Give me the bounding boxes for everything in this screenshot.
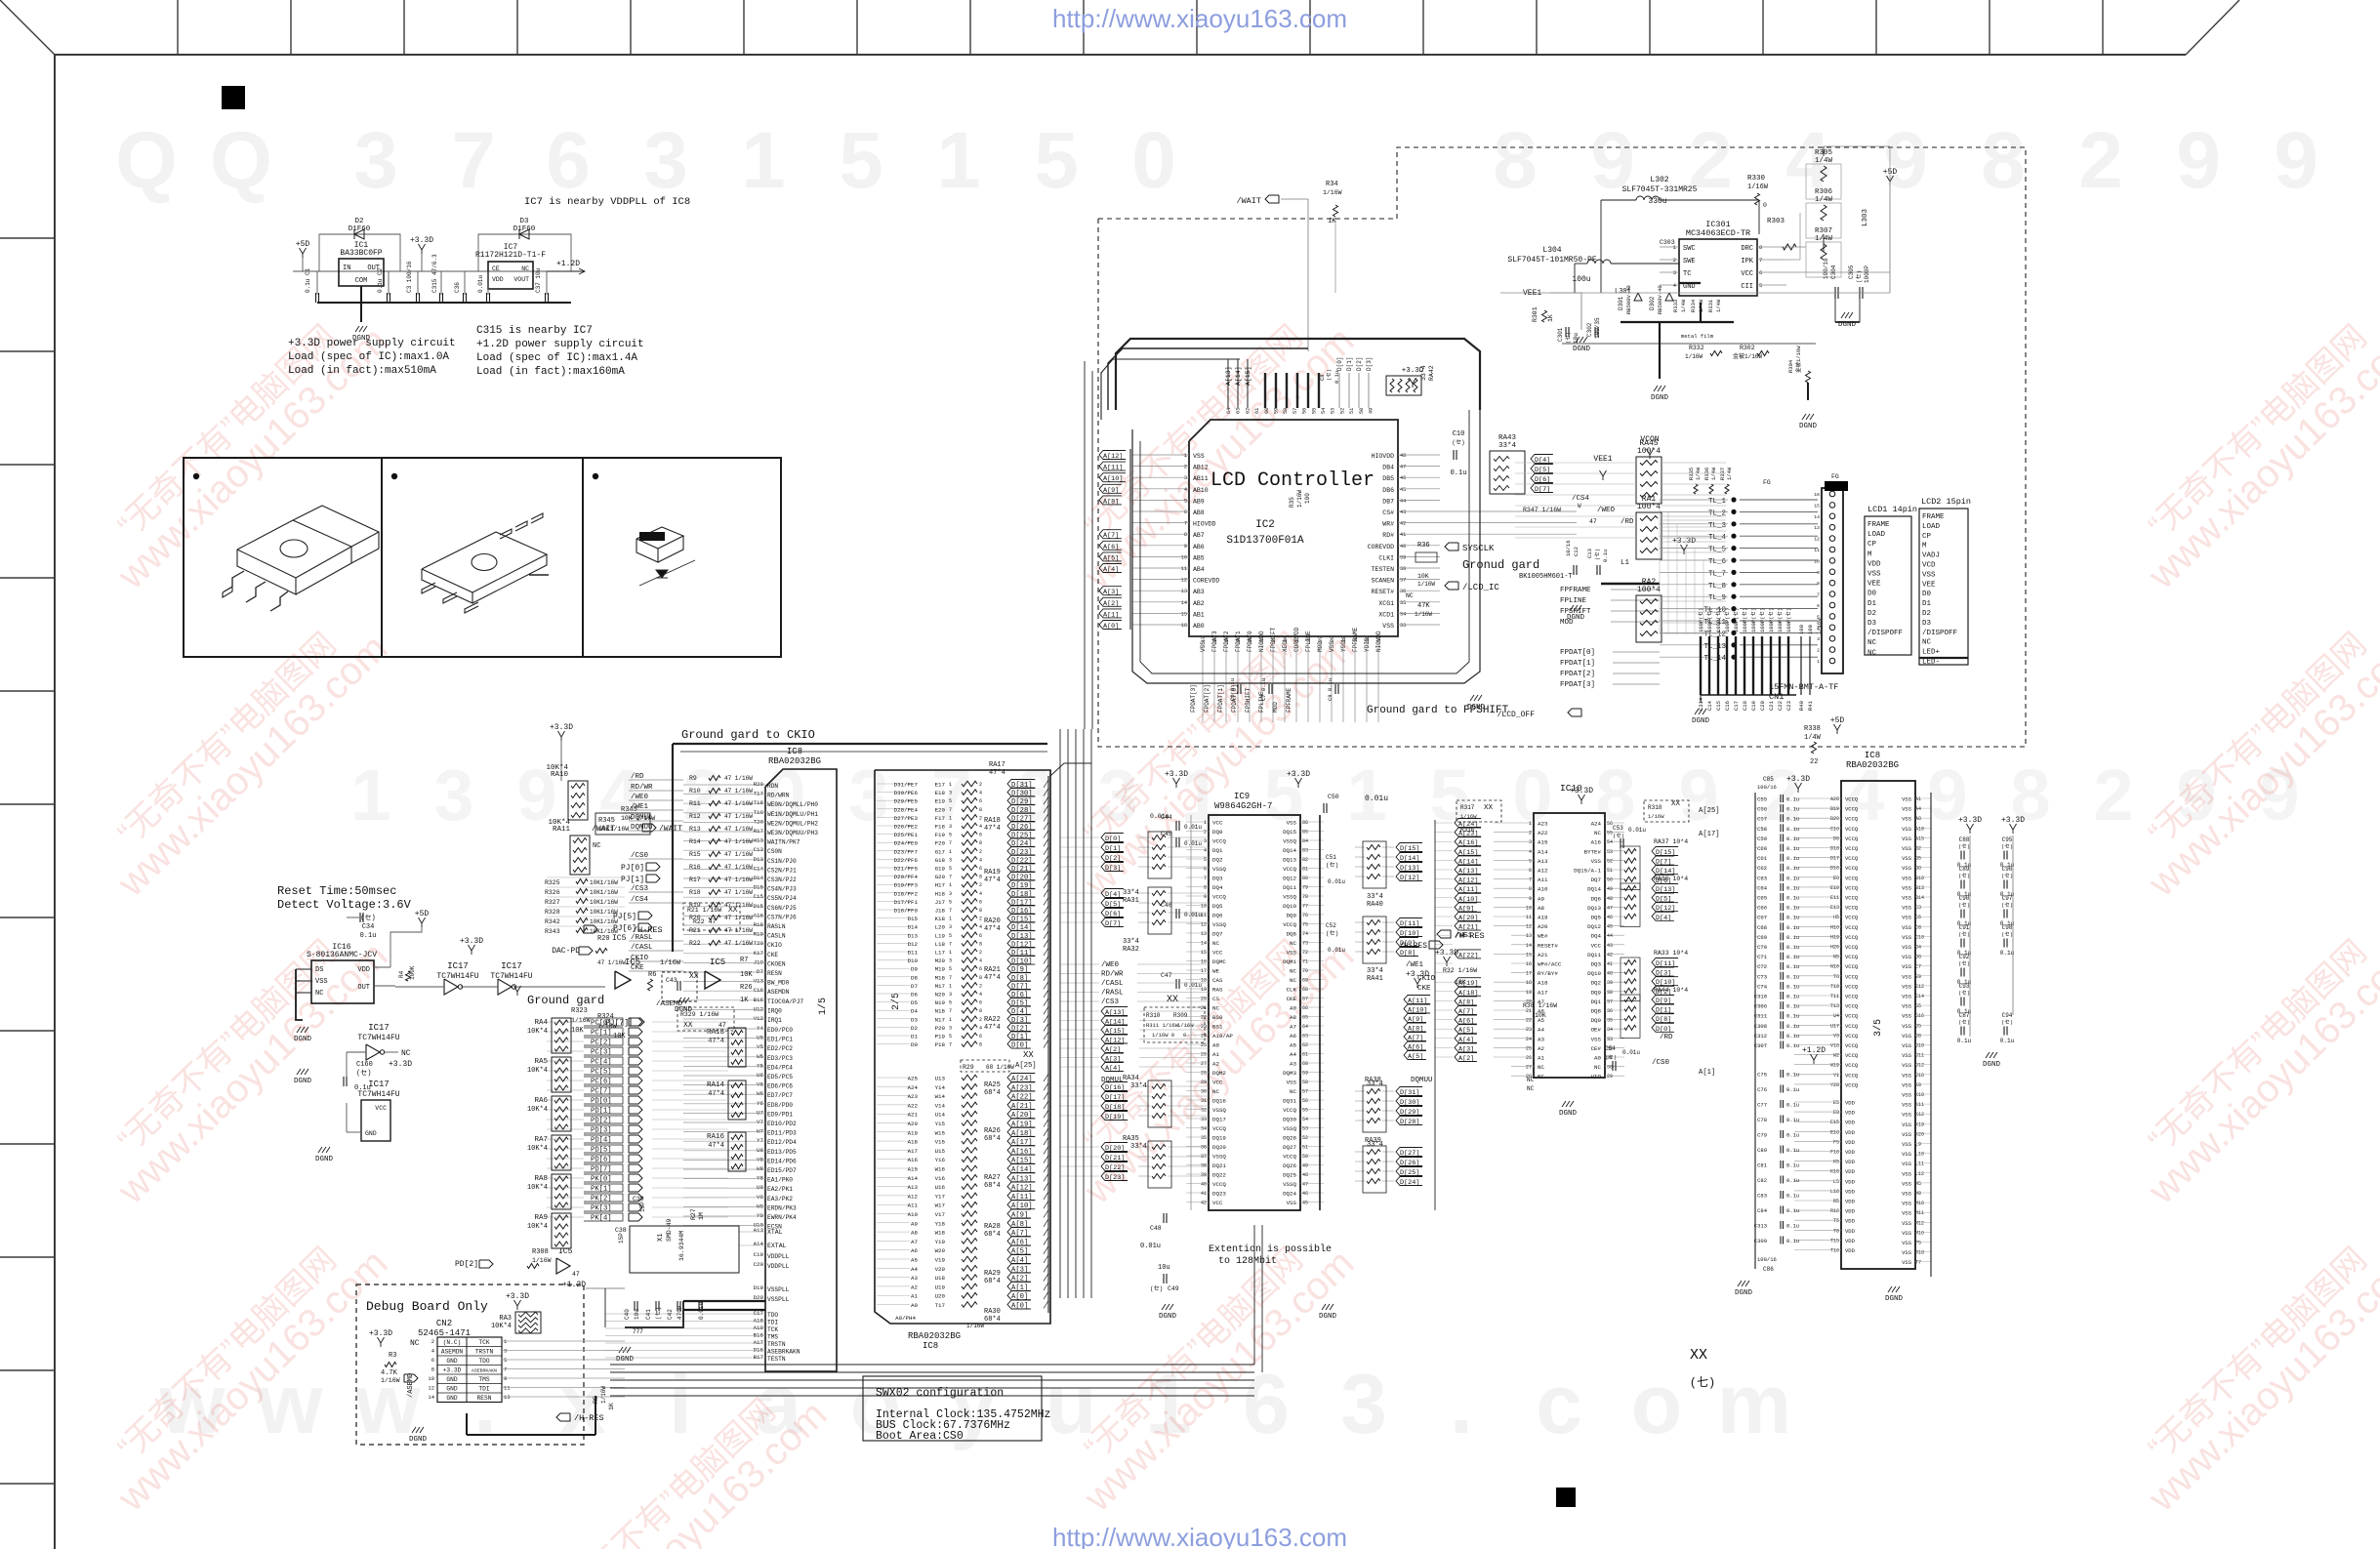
svg-text:D17: D17 [1830,856,1839,862]
svg-text:D[10]: D[10] [1400,930,1419,938]
svg-text:R41: R41 [1807,700,1814,711]
svg-text:D[6]: D[6] [1011,992,1028,999]
svg-text:P5: P5 [1915,1241,1921,1246]
svg-text:VSS: VSS [1902,1249,1912,1256]
svg-text:NC: NC [315,990,323,998]
svg-text:47 1/16W: 47 1/16W [724,775,753,782]
svg-text:C54: C54 [1605,1045,1616,1052]
svg-text:50: 50 [1302,1154,1308,1160]
svg-text:0.1u: 0.1u [1786,954,1799,960]
svg-text:1: 1 [1184,453,1187,459]
svg-text:+3.3D: +3.3D [1287,770,1310,779]
svg-text:DQ8: DQ8 [1287,931,1297,938]
svg-text:D[19]: D[19] [1011,882,1033,890]
svg-text:0.01u: 0.01u [1328,878,1345,885]
svg-text:W13: W13 [754,837,764,844]
svg-text:4: 4 [979,1025,982,1031]
svg-text:22: 22 [1810,758,1818,766]
svg-text:U8: U8 [757,1147,763,1154]
svg-text:Y6: Y6 [757,1100,763,1107]
svg-text:100P(セ): 100P(セ) [1733,608,1740,632]
svg-text:0.1u: 0.1u [1786,944,1799,951]
svg-text:D[4]: D[4] [1105,891,1121,899]
svg-text:D[3]: D[3] [1105,865,1121,873]
svg-text:100: 100 [1304,493,1311,504]
svg-text:0.1u: 0.1u [1786,826,1799,833]
svg-text:E17: E17 [935,782,946,789]
svg-text:RA25: RA25 [984,1081,1001,1089]
svg-text:68*4: 68*4 [984,1278,1001,1285]
svg-text:34: 34 [1607,1027,1613,1033]
svg-text:A[0]: A[0] [1103,623,1119,631]
svg-text:3: 3 [949,1025,952,1031]
svg-text:79: 79 [1302,885,1308,891]
svg-text:13: 13 [1526,933,1532,939]
svg-text:1/16W: 1/16W [1415,611,1432,618]
svg-text:26: 26 [1526,1055,1532,1061]
svg-text:FPLINE: FPLINE [1258,691,1265,713]
svg-text:C12: C12 [1573,547,1580,556]
svg-text:71: 71 [1302,959,1308,965]
svg-text:18: 18 [1526,980,1532,986]
svg-text:N19: N19 [935,999,946,1006]
svg-text:M18: M18 [935,974,946,981]
svg-text:37: 37 [1400,578,1406,584]
svg-text:P19: P19 [935,1034,946,1040]
svg-text:A10: A10 [1915,826,1924,832]
svg-text:D[2]: D[2] [1356,357,1363,371]
svg-text:VSSPLL: VSSPLL [767,1296,790,1303]
svg-text:FPDAT3: FPDAT3 [1211,631,1218,652]
svg-text:C160: C160 [356,1061,373,1069]
svg-text:D[11]: D[11] [1011,950,1033,958]
svg-text:R316: R316 [1460,827,1475,834]
svg-text:D[6]: D[6] [1535,476,1550,484]
svg-text:5: 5 [504,1357,507,1364]
svg-text:(セ): (セ) [2001,1019,2013,1026]
svg-text:RBA02032BG: RBA02032BG [768,756,821,766]
svg-text:V16: V16 [1830,1043,1839,1049]
svg-text:DQ6: DQ6 [1591,895,1602,902]
svg-text:A4: A4 [1915,806,1921,812]
svg-text:C46: C46 [1161,902,1172,909]
svg-text:43: 43 [1607,943,1613,949]
svg-text:T8: T8 [1833,1228,1839,1234]
svg-text:C19: C19 [754,1251,764,1258]
svg-text:C309: C309 [1754,1238,1767,1244]
svg-text:Y19: Y19 [935,1239,946,1245]
svg-text:FPDAT2: FPDAT2 [1223,631,1230,652]
svg-text:1/16W: 1/16W [532,1257,552,1264]
svg-text:5: 5 [1759,282,1762,289]
svg-text:DQ21: DQ21 [1212,1162,1226,1169]
svg-text:100P(セ): 100P(セ) [1750,608,1757,632]
svg-text:0.1u: 0.1u [1786,1042,1799,1049]
svg-text:VCCQ: VCCQ [1845,994,1859,1000]
svg-text:IC5: IC5 [612,934,627,943]
svg-text:C37 10u: C37 10u [535,267,542,293]
svg-text:7: 7 [1184,521,1187,527]
svg-text:DQ3: DQ3 [1212,876,1223,882]
svg-text:47 1/16W: 47 1/16W [724,876,753,883]
svg-text:M: M [1922,543,1927,550]
svg-text:9: 9 [1817,570,1820,576]
svg-text:C18: C18 [1742,701,1748,711]
svg-text:E16: E16 [1830,1129,1839,1135]
svg-text:L16: L16 [1830,1189,1839,1195]
svg-text:34: 34 [1400,611,1406,617]
svg-text:+3.3D: +3.3D [506,1292,529,1301]
svg-text:D[0]: D[0] [1656,1026,1671,1034]
svg-text:11: 11 [1814,548,1820,553]
svg-text:5: 5 [949,933,952,939]
svg-text:E7: E7 [1915,964,1921,970]
svg-text:FRAME: FRAME [1922,513,1945,521]
svg-text:A4: A4 [1538,1027,1544,1034]
svg-text:VSS: VSS [1902,1201,1912,1207]
svg-text:DGND: DGND [1885,1295,1904,1303]
svg-text:FPDAT[3]: FPDAT[3] [1190,684,1197,713]
svg-text:2: 2 [1673,257,1676,264]
svg-text:Y9: Y9 [757,1212,763,1219]
svg-text:A[17]: A[17] [1699,831,1720,838]
svg-text:VDD: VDD [1845,1139,1856,1146]
svg-text:6: 6 [1759,269,1762,276]
svg-text:DQ0: DQ0 [1591,1017,1602,1024]
svg-text:C301: C301 [1557,327,1564,342]
svg-text:D5: D5 [911,999,918,1006]
svg-text:(セ): (セ) [2001,931,2013,938]
svg-text:VSS: VSS [1382,623,1394,630]
svg-text:C47: C47 [1161,972,1172,979]
svg-text:8: 8 [979,840,982,846]
svg-text:DQ31: DQ31 [1283,1098,1296,1105]
svg-text:59: 59 [1302,1071,1308,1077]
svg-text:VDD: VDD [357,966,370,974]
svg-text:30: 30 [1201,1089,1207,1095]
svg-text:+3.3D: +3.3D [2001,816,2025,825]
svg-text:1000P: 1000P [1864,265,1870,283]
svg-text:VCCQ: VCCQ [1283,866,1296,873]
svg-text:D0: D0 [1867,591,1877,598]
svg-text:RAS: RAS [1212,987,1223,994]
svg-text:47 1/16W: 47 1/16W [724,940,753,947]
svg-text:0.1u: 0.1u [1786,1207,1799,1214]
svg-text:C303: C303 [1660,239,1675,246]
svg-text:ASEMDN: ASEMDN [767,989,790,996]
svg-text:A19: A19 [754,1325,764,1331]
svg-text:R310: R310 [1146,1012,1161,1019]
svg-text:4.7K: 4.7K [381,1369,398,1377]
svg-text:D1: D1 [1867,600,1877,608]
svg-text:TRSTN: TRSTN [767,1341,786,1348]
svg-text:C38: C38 [615,1227,627,1234]
svg-text:Q: Q [210,116,272,205]
svg-text:/CS4: /CS4 [1572,495,1590,503]
svg-text:C94: C94 [2002,1012,2013,1019]
svg-text:0.1u: 0.1u [1786,1117,1799,1123]
svg-text:K9: K9 [1915,1082,1921,1088]
svg-text:+3.3D power supply circuit: +3.3D power supply circuit [288,338,456,349]
svg-text:NC: NC [1406,592,1414,599]
svg-text:VSS: VSS [1902,1112,1912,1119]
svg-text:M11: M11 [1915,1210,1924,1216]
svg-text:R330: R330 [1747,175,1766,183]
svg-text:D[26]: D[26] [1400,1160,1419,1167]
svg-text:VCCQ: VCCQ [1283,1107,1296,1114]
svg-text:ASEBRKAKN: ASEBRKAKN [472,1368,497,1374]
svg-text:VSS: VSS [315,978,328,986]
svg-text:H18: H18 [935,890,946,897]
svg-text:YDIS: YDIS [1364,637,1371,652]
svg-text:/WEO: /WEO [1597,507,1616,514]
svg-text:10u: 10u [634,1309,640,1320]
svg-text:A[5]: A[5] [1103,554,1119,562]
svg-text:D[17]: D[17] [1011,899,1033,907]
svg-text:FPFRAME: FPFRAME [1286,687,1293,713]
svg-text:52: 52 [1607,858,1613,864]
svg-text:/WAIT: /WAIT [659,825,682,834]
svg-text:44: 44 [1607,933,1613,939]
svg-text:R307: R307 [1815,227,1832,235]
svg-text:R10: R10 [689,788,701,795]
svg-text:/CS0: /CS0 [1652,1059,1670,1067]
svg-text:C73: C73 [1757,973,1767,980]
svg-text:10K*4: 10K*4 [527,1028,548,1036]
svg-text:2: 2 [2093,754,2133,836]
svg-text:A[8]: A[8] [1103,498,1119,506]
svg-text:8: 8 [1595,754,1635,836]
svg-text:100K: 100K [409,965,416,980]
svg-text:10K*4: 10K*4 [527,1223,548,1231]
svg-text:38: 38 [1607,990,1613,996]
svg-text:TMS: TMS [767,1334,778,1341]
svg-text:VSS: VSS [1902,1081,1912,1088]
svg-text:1: 1 [949,950,952,956]
svg-text:A24: A24 [1591,821,1602,828]
svg-text:P20: P20 [935,1025,946,1032]
svg-text:D13: D13 [908,932,919,939]
svg-text:40: 40 [1201,1182,1207,1188]
svg-text:0.01u: 0.01u [1184,912,1202,918]
svg-text:64: 64 [1226,408,1232,414]
svg-text:7: 7 [949,875,952,880]
svg-text:/LCD_OFF: /LCD_OFF [1498,711,1536,719]
svg-text:RA21: RA21 [984,966,1001,974]
svg-text:A22: A22 [1538,830,1548,836]
svg-text:Load (in fact):max510mA: Load (in fact):max510mA [288,365,436,377]
svg-text:64: 64 [1302,1024,1308,1030]
svg-text:8: 8 [1184,532,1187,538]
svg-text:VCCQ: VCCQ [1845,1033,1859,1039]
svg-text:50: 50 [1359,408,1365,414]
svg-text:DQ20: DQ20 [1212,1144,1226,1151]
svg-text:41: 41 [1201,1191,1207,1197]
svg-text:C52: C52 [1326,922,1336,929]
svg-text:10K1/16W: 10K1/16W [590,889,618,896]
svg-text:D1: D1 [911,1034,918,1040]
svg-text:D14: D14 [908,924,919,931]
svg-text:24: 24 [1526,1037,1532,1042]
svg-text:TL_8: TL_8 [1708,583,1726,591]
svg-text:3: 3 [949,958,952,964]
svg-text:D[5]: D[5] [1011,1000,1028,1008]
svg-text:1/16W: 1/16W [1296,490,1303,508]
svg-text:D[7]: D[7] [1011,983,1028,991]
svg-text:16: 16 [1181,623,1187,629]
svg-text:VSS: VSS [1902,1121,1912,1128]
svg-text:0.1u: 0.1u [1786,924,1799,931]
svg-text:H16: H16 [1830,924,1839,930]
svg-text:A1: A1 [1915,796,1921,802]
svg-text:DQ26: DQ26 [1283,1162,1296,1169]
svg-text:VCC: VCC [1212,950,1223,957]
svg-text:27: 27 [1318,636,1324,642]
svg-text:C75: C75 [1757,1072,1767,1079]
svg-text:58: 58 [1302,1080,1308,1085]
svg-text:60: 60 [1264,408,1270,414]
svg-text:4: 4 [979,857,982,863]
svg-text:A1: A1 [911,1293,918,1300]
svg-text:EWRN/PK4: EWRN/PK4 [767,1214,797,1221]
svg-text:AB1: AB1 [1193,611,1205,618]
svg-text:A[0]: A[0] [1011,1303,1028,1311]
svg-text:CP: CP [1922,533,1932,541]
svg-text:5: 5 [1263,754,1303,836]
svg-text:0.1u: 0.1u [1786,934,1799,941]
svg-text:U12: U12 [754,1005,764,1012]
svg-text:D12: D12 [908,941,919,948]
svg-text:2: 2 [1184,465,1187,470]
svg-text:K12: K12 [1915,1112,1924,1118]
svg-text:VSS: VSS [1329,641,1335,652]
svg-text:7: 7 [451,116,496,205]
svg-text:6: 6 [431,1357,434,1364]
svg-text:3: 3 [949,891,952,897]
svg-text:R338: R338 [1804,725,1821,733]
svg-text:CE: CE [492,265,500,272]
svg-text:BYTE#: BYTE# [1584,848,1602,855]
svg-text:32: 32 [1201,1108,1207,1114]
svg-text:0.1u: 0.1u [1786,1086,1799,1093]
svg-text:8: 8 [1204,885,1207,891]
svg-text:R20: R20 [597,935,610,943]
svg-text:A23: A23 [1538,821,1548,828]
svg-text:D[19]: D[19] [1105,1114,1125,1121]
svg-text:m: m [1717,1358,1791,1451]
svg-text:RA11: RA11 [553,826,571,834]
svg-text:2: 2 [979,917,982,922]
svg-text:RD#: RD# [1382,532,1394,539]
svg-text:D[1]: D[1] [1011,1034,1028,1041]
svg-text:NC: NC [521,265,529,272]
svg-text:B17: B17 [754,1354,764,1361]
svg-text:47*4: 47*4 [984,974,1001,982]
svg-text:(七): (七) [1690,1375,1715,1390]
svg-text:A[25]: A[25] [1699,807,1720,815]
svg-text:100/16: 100/16 [1757,784,1777,791]
svg-text:AB11: AB11 [1193,475,1209,482]
svg-text:D[23]: D[23] [1011,849,1033,857]
svg-text:FPDAT[0]: FPDAT[0] [1231,684,1238,713]
svg-text:D10: D10 [1830,846,1839,852]
svg-text:TL_14: TL_14 [1703,655,1726,663]
svg-text:D[7]: D[7] [1535,486,1550,494]
svg-text:10: 10 [1814,558,1820,564]
svg-text:R317: R317 [1460,804,1475,811]
svg-text:RESN: RESN [767,970,782,977]
svg-text:0.1u: 0.1u [1786,963,1799,970]
svg-text:0.1u: 0.1u [2000,950,2015,957]
svg-text:AB0: AB0 [1193,623,1205,630]
svg-text:11: 11 [1181,566,1187,572]
svg-text:10: 10 [1526,905,1532,911]
svg-text:R21 1/16W: R21 1/16W [687,907,721,914]
svg-text:VSS: VSS [1902,1161,1912,1167]
svg-text:XX: XX [689,972,699,981]
svg-text:C64: C64 [1757,884,1768,891]
svg-text:VSS: VSS [1902,1131,1912,1138]
svg-text:ED5/PC5: ED5/PC5 [767,1074,793,1080]
svg-text:RA33 10*4: RA33 10*4 [1654,950,1688,957]
svg-text:T13: T13 [1830,1003,1839,1009]
svg-text:10K1/16W: 10K1/16W [590,899,618,906]
svg-text:NC: NC [1922,639,1932,647]
svg-text:C23: C23 [1785,701,1792,711]
svg-text:TIOC0A/PJ7: TIOC0A/PJ7 [767,999,803,1005]
svg-text:TCK: TCK [767,1326,778,1333]
svg-text:CN2: CN2 [436,1319,452,1328]
svg-text:/WAIT: /WAIT [1236,196,1261,206]
svg-text:C50: C50 [1328,794,1339,800]
svg-text:R331: R331 [1707,299,1714,312]
svg-text:/WE1: /WE1 [1406,961,1424,969]
svg-text:VSS: VSS [1287,950,1297,957]
svg-text:http://www.xiaoyu163.com: http://www.xiaoyu163.com [1052,1523,1347,1549]
svg-text:VCCQ: VCCQ [1845,963,1859,970]
svg-text:0.01u: 0.01u [477,275,484,293]
svg-text:FPDAT[3]: FPDAT[3] [1560,681,1595,689]
svg-text:A2: A2 [1212,1061,1219,1068]
svg-text:VCCQ: VCCQ [1845,1023,1859,1030]
svg-text:AB8: AB8 [1193,510,1205,516]
svg-text:10K*4: 10K*4 [527,1067,548,1075]
svg-text:47 1/16W: 47 1/16W [724,788,753,795]
svg-text:C305: C305 [1848,265,1855,279]
svg-text:Y14: Y14 [935,1084,946,1091]
svg-text:10K*4: 10K*4 [527,1145,548,1153]
svg-text:DQ14: DQ14 [1283,847,1296,854]
svg-text:RA29: RA29 [984,1270,1001,1278]
svg-text:TC7WH14FU: TC7WH14FU [357,1090,399,1099]
svg-text:1: 1 [741,116,786,205]
svg-text:A6: A6 [911,1247,918,1254]
svg-text:C48: C48 [1150,1225,1162,1232]
svg-text:13: 13 [1201,931,1207,937]
svg-text:D24/PE0: D24/PE0 [894,840,919,847]
svg-text:0.1u: 0.1u [1602,550,1609,562]
svg-text:ED1/PC1: ED1/PC1 [767,1037,793,1043]
svg-text:6: 6 [979,866,982,872]
svg-text:SWC: SWC [1683,245,1696,253]
svg-text:81: 81 [1302,867,1308,873]
svg-text:DB7: DB7 [1382,498,1394,505]
svg-text:FPFRAME: FPFRAME [1560,587,1591,594]
svg-text:/ASEMD: /ASEMD [656,1000,683,1008]
svg-text:RA7: RA7 [534,1136,548,1144]
svg-text:G16: G16 [1915,1013,1924,1019]
svg-text:K18: K18 [935,916,946,922]
